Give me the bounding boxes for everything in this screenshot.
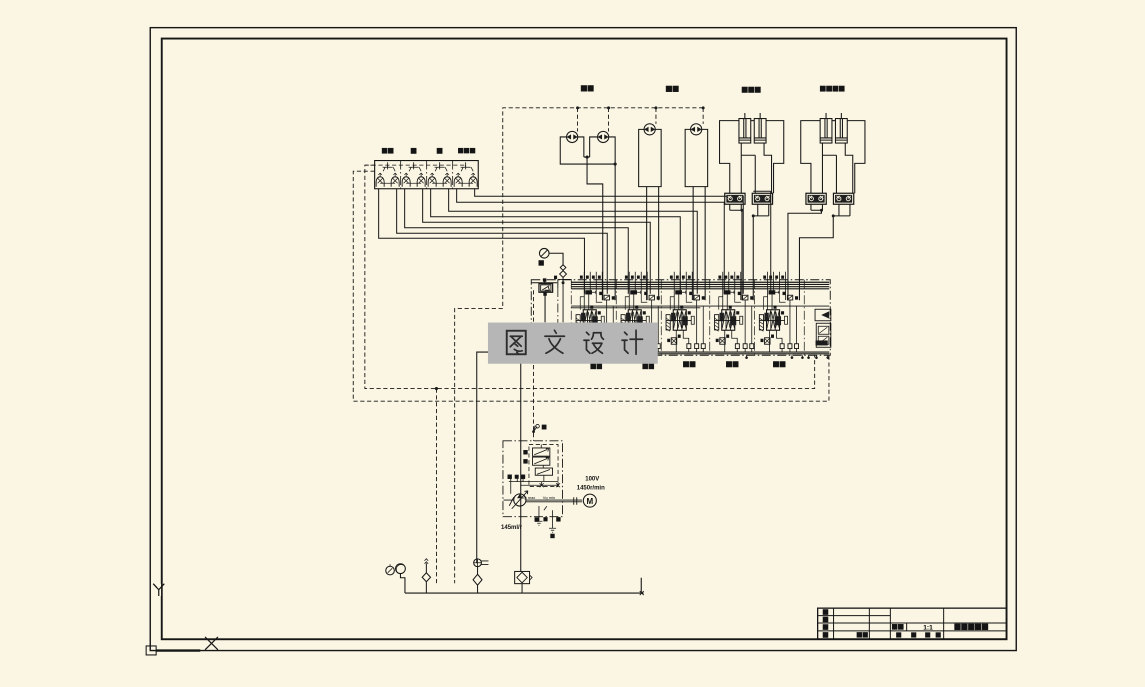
svg-text:M: M — [587, 497, 594, 506]
regulator valve 3 — [535, 468, 552, 475]
sheet inner frame — [162, 39, 1007, 640]
pilot valve block PV (4 joystick pilot valves) — [365, 161, 478, 189]
regulator valve FR — [524, 457, 550, 465]
check valve CV1 — [422, 559, 430, 593]
valve bank section dividers — [571, 280, 804, 356]
watermark box — [488, 323, 658, 364]
sheet outer frame — [150, 28, 1016, 651]
dashed drain drop line — [435, 389, 437, 584]
valve bank section labels — [591, 362, 785, 369]
cylinder group CG1 (rear support cylinders) — [720, 113, 784, 193]
svg-text:Vg min: Vg min — [543, 495, 555, 500]
inlet port lines — [558, 279, 572, 355]
drive shaft — [503, 497, 582, 505]
valve bank tank rail — [531, 352, 829, 354]
pump regulator dashed box — [529, 445, 558, 487]
CG2 wires to valve bank — [788, 204, 850, 300]
motor pair supply loop — [560, 137, 617, 300]
valve bank drain stubs and dots — [603, 355, 829, 360]
node Y axis mark — [153, 584, 164, 596]
main pressure line — [520, 355, 522, 571]
pilot check valve block V1b — [752, 193, 772, 204]
pressure gauge M1 — [539, 248, 563, 265]
cylinder group CG2 (outrigger cylinders) — [801, 113, 865, 193]
tank line — [405, 578, 641, 593]
pilot valve labels — [382, 148, 474, 153]
CG1 wires to valve bank — [730, 204, 769, 300]
motor M3 supply loop — [639, 129, 662, 300]
pilot drain dashed enclosure inner — [365, 165, 815, 388]
motor M1 (winch) — [567, 131, 578, 142]
actuator labels — [581, 86, 844, 93]
pump unit enclosure — [503, 441, 563, 517]
variable displacement pump P1 — [509, 491, 528, 509]
pump drain ports — [535, 506, 556, 532]
valve bank end section — [815, 309, 831, 347]
port M2 symbol — [532, 424, 546, 433]
svg-text:145ml/r: 145ml/r — [501, 525, 523, 531]
svg-text:100V: 100V — [585, 477, 599, 483]
regulator connections — [509, 445, 560, 494]
svg-text:Vg max: Vg max — [522, 495, 536, 500]
tank line end mark — [637, 591, 644, 595]
svg-text:1:1: 1:1 — [923, 624, 933, 631]
regulator valve DR — [524, 448, 550, 456]
pilot check valve block V2b — [833, 193, 853, 204]
junction dot on dashed line — [435, 387, 438, 390]
valve bank enclosure — [531, 280, 830, 356]
pilot control wires (pilot block to valve bank) — [379, 189, 771, 294]
motor M4 (swing) — [691, 124, 702, 135]
title block — [818, 608, 1007, 639]
watermark glyphs — [507, 330, 643, 354]
filter F1 — [515, 571, 532, 593]
motor M2 (winch) — [598, 131, 609, 142]
pilot check valve block V1a — [725, 193, 745, 204]
relief valve at inlet — [531, 279, 557, 322]
node origin marker — [146, 646, 200, 655]
node X axis mark — [205, 637, 218, 650]
svg-text:1450r/min: 1450r/min — [577, 485, 605, 491]
check valves at inlet — [555, 265, 567, 285]
throttle + check valve CV2 — [473, 559, 488, 593]
gauge G1 — [386, 564, 395, 575]
valve bank working sections — [576, 272, 799, 352]
drain line to pump (dashed) — [533, 290, 535, 441]
valve bank supply rails — [571, 282, 829, 289]
valve bank mid rails — [571, 306, 829, 308]
pilot drain dashed enclosure outer — [353, 171, 829, 401]
tank return line from bank — [477, 352, 532, 563]
pilot check valve block V2a — [806, 193, 826, 204]
electric motor M — [583, 494, 596, 507]
pilot line junction dots — [576, 106, 705, 109]
motor M4 supply loop — [685, 129, 708, 300]
motor M3 (swing) — [644, 124, 655, 135]
motor pilot dashed drops — [578, 108, 704, 132]
dashed pilot supply line (to motors) — [455, 108, 704, 583]
gauge G2 — [396, 564, 406, 593]
